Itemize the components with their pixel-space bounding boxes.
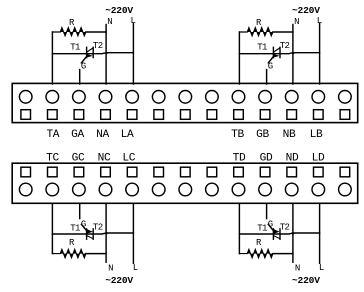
svg-text:GA: GA [71,129,84,141]
terminal strip X1 (upper) [12,83,358,122]
terminal 12 (strip X2) [312,183,325,196]
svg-text:L: L [130,16,135,26]
svg-text:N: N [294,17,299,27]
terminal 3 (strip X1) [73,91,86,104]
svg-text:LD: LD [312,153,325,165]
terminal 1 (strip X2) [19,183,32,196]
triac gate diagonal [268,56,273,63]
wire: line LA vertical [132,24,134,85]
svg-text:~220V: ~220V [292,5,320,16]
svg-text:GD: GD [260,153,273,165]
svg-text:GB: GB [256,129,269,141]
svg-text:T1: T1 [257,42,267,52]
svg-text:R: R [256,18,262,28]
resistor R (B phase) [239,28,273,36]
wire: neutral NB vertical [292,25,294,85]
terminal 6 (strip X1) [152,91,165,104]
svg-text:R: R [69,18,75,28]
triac VB (T1/T2 bars + triangles) [272,47,274,57]
triac VD (T1/T2 bars + triangles) [272,229,274,239]
triac gate diagonal [81,56,87,63]
svg-text:TB: TB [231,129,244,141]
svg-text:~220V: ~220V [292,275,320,286]
svg-text:GC: GC [72,153,85,165]
terminal 5 (strip X1) [126,91,139,104]
svg-text:LC: LC [122,153,135,165]
triac gate diagonal [81,224,87,231]
wire: terminal TD vertical [238,203,240,253]
wire: terminal TC vertical [51,203,53,253]
wire: triac horizontal with crossover jog [52,233,133,234]
svg-text:N: N [108,264,113,274]
svg-text:G: G [81,220,86,230]
svg-text:T1: T1 [70,42,80,52]
wire: terminal GC vertical [79,203,81,218]
svg-text:T2: T2 [280,222,290,232]
svg-text:TD: TD [233,153,246,165]
wire: terminal GB vertical [266,70,268,84]
terminal 3 (strip X2) [73,183,86,196]
wire: line LD vertical [319,203,321,263]
triac gate diagonal [268,224,273,231]
svg-text:R: R [256,238,262,248]
wire: neutral NA vertical [105,25,107,85]
svg-text:G: G [268,62,273,72]
terminal 7 (strip X2) [179,183,192,196]
svg-text:T2: T2 [280,41,290,51]
svg-text:T1: T1 [70,223,80,233]
triac VA (T1/T2 bars + triangles) [86,47,88,57]
terminal 2 (strip X1) [46,91,59,104]
svg-text:L: L [133,263,138,273]
svg-text:G: G [81,62,86,72]
terminal 11 (strip X1) [285,91,298,104]
terminal 9 (strip X1) [232,91,245,104]
wire: terminal TA vertical [51,32,53,84]
triac VC (T1/T2 bars + triangles) [86,229,88,239]
terminal 5 (strip X2) [126,183,139,196]
terminal 10 (strip X2) [259,183,272,196]
terminal 9 (strip X2) [232,183,245,196]
circuit C (bottom-left) [52,203,138,285]
wire: triac horizontal with crossover jog [239,53,319,54]
svg-text:LB: LB [310,129,323,141]
svg-text:~220V: ~220V [105,5,133,16]
circuit A (top-left) [52,5,136,84]
terminal 2 (strip X2) [46,183,59,196]
resistor R (C phase) [52,249,86,257]
wire: neutral ND vertical [292,203,294,262]
terminal 10 (strip X1) [259,91,272,104]
svg-text:ND: ND [286,153,299,165]
svg-text:~220V: ~220V [105,275,133,286]
svg-text:T2: T2 [93,41,103,51]
resistor R (D phase) [239,249,273,257]
wire: triac horizontal with crossover jog [239,233,319,234]
terminal 6 (strip X2) [152,183,165,196]
svg-text:LA: LA [121,129,134,141]
svg-text:R: R [69,238,75,248]
wire: terminal GA vertical [79,70,81,84]
terminal strip X2 (lower) [12,163,358,203]
wire: neutral NC vertical [105,203,107,262]
svg-text:T1: T1 [257,223,267,233]
resistor R (A phase) [52,28,86,36]
wire: terminal TB vertical [238,32,240,84]
terminal 4 (strip X1) [99,91,112,104]
svg-text:L: L [319,263,324,273]
terminal 12 (strip X1) [312,91,325,104]
terminal 7 (strip X1) [179,91,192,104]
wire: line LC vertical [132,203,134,263]
terminal 4 (strip X2) [99,183,112,196]
svg-text:N: N [295,264,300,274]
terminal 8 (strip X1) [206,91,219,104]
terminal 1 (strip X1) [19,91,32,104]
circuit D (bottom-right) [239,203,324,285]
wire: triac horizontal with crossover jog [52,53,133,54]
terminal 13 (strip X1) [339,91,352,104]
svg-text:N: N [107,17,112,27]
svg-text:NC: NC [98,153,111,165]
svg-text:L: L [317,16,322,26]
terminal 8 (strip X2) [206,183,219,196]
svg-text:TA: TA [46,129,59,141]
wire: line LB vertical [319,24,321,85]
svg-text:T2: T2 [93,222,103,232]
wire: terminal GD vertical [266,203,268,218]
terminal 13 (strip X2) [339,183,352,196]
svg-text:NB: NB [283,129,296,141]
circuit B (top-right) [239,5,322,84]
terminal 11 (strip X2) [285,183,298,196]
svg-text:G: G [268,220,273,230]
svg-text:TC: TC [46,153,59,165]
svg-text:NA: NA [96,129,109,141]
